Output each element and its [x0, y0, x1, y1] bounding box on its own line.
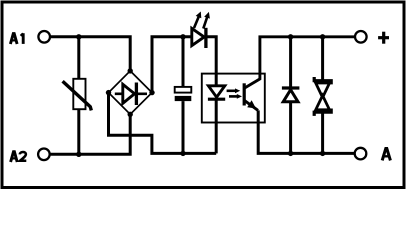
wire emitter to bottom rail: [258, 110, 355, 153]
node A1/varistor: [76, 34, 81, 39]
TVS suppressor V3: [314, 77, 331, 84]
coupling arrow upper: [227, 90, 236, 93]
wire bridge right vertex riser to top rail: [152, 37, 192, 93]
LED indicator V1: [192, 28, 204, 45]
wire diode branch: [289, 37, 292, 154]
node return rail / capacitor: [180, 151, 185, 156]
phototransistor base bar: [243, 83, 246, 105]
wire LED cathode to optocoupler anode: [206, 37, 216, 86]
phototransistor emitter: [244, 100, 258, 110]
wire capacitor bottom: [182, 101, 185, 153]
wire varistor branch top: [77, 37, 80, 79]
terminal A: [355, 148, 367, 160]
wire A2 to bridge bottom: [50, 114, 130, 154]
bridge rectifier B1: [109, 71, 153, 114]
label A2: [11, 152, 27, 162]
node bottom rail / TVS: [320, 151, 325, 156]
node bottom rail / diode: [288, 151, 293, 156]
wire varistor branch bottom: [77, 109, 80, 154]
node bridge top: [128, 68, 133, 73]
optocoupler U1 box: [202, 74, 265, 123]
wire TVS branch: [321, 37, 324, 154]
varistor RU: [73, 79, 85, 109]
label A1: [10, 33, 23, 44]
label A: [382, 149, 390, 161]
LED emission arrow 1: [194, 17, 199, 29]
node bridge right: [149, 90, 154, 95]
node top rail / capacitor: [180, 34, 185, 39]
coupling arrow lower: [229, 95, 237, 98]
phototransistor collector to + rail: [244, 37, 355, 89]
wire optocoupler cathode down: [215, 99, 218, 153]
terminal A1: [38, 31, 50, 43]
node bridge bottom: [128, 112, 133, 117]
capacitor C1: [175, 87, 192, 93]
wire capacitor top: [182, 37, 185, 87]
wire bridge left vertex to lower return rail: [109, 93, 217, 154]
wire A1 to bridge top: [51, 37, 131, 71]
LED emission arrow 2: [203, 17, 207, 29]
terminal A2: [38, 149, 50, 161]
node A2/varistor: [76, 152, 81, 157]
node bridge left: [106, 90, 111, 95]
diode V2: [282, 86, 300, 89]
node top rail / diode: [288, 34, 293, 39]
optocoupler LED: [208, 86, 224, 97]
border frame: [2, 2, 404, 188]
terminal plus: [355, 31, 367, 43]
label plus: [378, 36, 389, 39]
node top rail / TVS: [320, 34, 325, 39]
